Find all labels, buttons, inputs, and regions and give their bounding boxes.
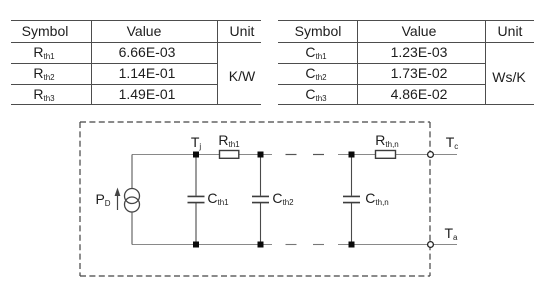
node n2 junction top xyxy=(258,152,264,158)
dashed continuation bottom rail xyxy=(286,244,325,246)
wire R_th,n to terminal Tc xyxy=(396,154,428,156)
label C_th,n xyxy=(365,190,388,206)
dashed enclosure box xyxy=(80,122,430,276)
wire node n3 stub to R_th,n xyxy=(338,154,376,156)
label R_th,n xyxy=(375,132,398,148)
label Tj xyxy=(191,134,201,150)
junction bottom under C_th,n xyxy=(349,242,355,248)
wire bottom rail left segment xyxy=(132,244,272,246)
wire R_th1 to past node n2 xyxy=(239,154,272,156)
wire left branch lower xyxy=(131,212,133,245)
capacitor C_th2 xyxy=(260,158,262,245)
resistor R_th,n body xyxy=(376,151,396,159)
capacitor C_th1 xyxy=(195,158,197,245)
arrow of current source xyxy=(117,193,119,210)
junction bottom under C_th1 xyxy=(193,242,199,248)
wire left branch upper xyxy=(131,155,133,189)
node n3 junction top xyxy=(349,152,355,158)
wire top rail from source to R_th1 xyxy=(132,154,220,156)
label C_th2 xyxy=(272,190,293,206)
capacitor C_th,n xyxy=(351,158,353,245)
terminal Ta xyxy=(428,242,434,248)
node Tj junction xyxy=(193,152,199,158)
junction bottom under C_th2 xyxy=(258,242,264,248)
wire Ta stub xyxy=(434,244,457,246)
dashed continuation top rail xyxy=(286,154,325,156)
label R_th1 xyxy=(218,132,239,148)
wire bottom rail right segment xyxy=(338,244,427,246)
resistor R_th1 body xyxy=(220,151,239,159)
label P_D xyxy=(95,191,110,207)
label Tc xyxy=(446,134,459,150)
current source P_D circles xyxy=(125,189,140,213)
wire Tc stub xyxy=(434,154,457,156)
label C_th1 xyxy=(207,190,228,206)
terminal Tc xyxy=(428,152,434,158)
label Ta xyxy=(444,225,457,241)
